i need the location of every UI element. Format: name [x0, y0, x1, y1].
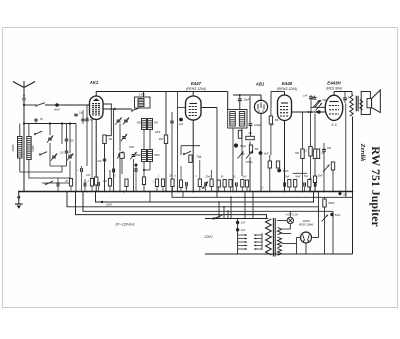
svg-text:7500: 7500 [154, 154, 160, 157]
volume pot [246, 151, 253, 159]
resistor af r3 [316, 149, 319, 159]
wire det h [261, 154, 270, 156]
wire mid h [181, 145, 200, 147]
wire T1 top [143, 92, 145, 98]
coil T2a [230, 112, 236, 127]
wire T2 down b [241, 128, 243, 176]
tube AK1 envelope [90, 96, 104, 120]
wire mains top [205, 218, 268, 220]
tube E446 grids [280, 106, 289, 108]
wire osc feed [149, 192, 151, 203]
node d1 [123, 191, 125, 193]
wire osc c [143, 162, 145, 178]
resistor bus rb9 [198, 179, 201, 187]
svg-text:40nF: 40nF [54, 107, 60, 111]
tube E447 anode [190, 103, 198, 105]
capacitor psu [330, 213, 333, 216]
svg-text:300: 300 [154, 122, 159, 125]
coil osc B [148, 119, 153, 130]
coil osc A [142, 119, 147, 130]
svg-text:AB1: AB1 [255, 82, 265, 87]
wire drop6 [252, 192, 254, 219]
capacitor bus cb8 [313, 182, 315, 186]
wire B+ line P1 [172, 192, 353, 198]
svg-text:20000: 20000 [12, 144, 15, 153]
svg-text:25: 25 [64, 180, 68, 183]
trimmer gang3 [122, 136, 126, 138]
wire osc f [121, 158, 123, 174]
tube E447 grids [189, 106, 198, 108]
capacitor pad R [134, 168, 136, 172]
resistor bus rb10 [210, 179, 213, 187]
wire speaker leads [360, 99, 361, 101]
svg-text:5nF: 5nF [243, 177, 248, 179]
wire band v1 [49, 124, 51, 136]
voltage selector left [238, 234, 247, 236]
capacitor 330 [65, 138, 69, 140]
wire rect leads [297, 237, 301, 239]
svg-text:(470k): (470k) [245, 161, 252, 164]
wire E447 cathode [192, 120, 194, 192]
capacitor bus cb6 [283, 182, 285, 186]
wire lamp up [289, 211, 291, 217]
switch S3 [39, 154, 41, 156]
resistor bus rb4 [108, 179, 111, 187]
capacitor 5n out [343, 97, 347, 99]
resistor bus rb15 [245, 180, 248, 187]
resistor bus rb6 [161, 179, 164, 187]
wire drop3 [227, 211, 229, 218]
resistor AK1 cathode [95, 177, 98, 185]
trimmer C3 [68, 155, 72, 157]
wire E443H top [333, 92, 335, 96]
svg-text:(RES 964): (RES 964) [326, 86, 342, 90]
coil T1 [138, 99, 144, 107]
svg-text:500Ω: 500Ω [328, 202, 334, 205]
resistor bus rb14 [241, 180, 244, 188]
svg-text:7x200: 7x200 [32, 145, 35, 152]
capacitor oscc [170, 120, 174, 122]
wire line P5 [76, 192, 267, 220]
tube AB1 envelope [254, 100, 267, 113]
svg-text:10µF: 10µF [243, 98, 249, 102]
wire gang down [113, 109, 115, 192]
arrow bus a1 [203, 182, 209, 189]
trimmer osc2 [132, 154, 136, 156]
svg-text:~: ~ [77, 168, 79, 172]
tube E443H anode [330, 101, 339, 103]
svg-text:4nF: 4nF [97, 160, 102, 163]
svg-text:1805: 1805 [303, 219, 310, 223]
wire band v5 [61, 124, 63, 145]
capacitor bus cb7 [303, 182, 305, 186]
svg-text:10nF: 10nF [317, 176, 323, 178]
capacitor 100pF [249, 123, 253, 125]
svg-text:(RGN 1064): (RGN 1064) [299, 223, 314, 227]
wire grid left [311, 106, 325, 108]
svg-text:25nF: 25nF [283, 177, 290, 179]
capacitor bus cb4 [204, 182, 206, 186]
wire band loop1 [20, 158, 62, 172]
wire band v4 [75, 124, 77, 192]
wire v87 [86, 105, 88, 119]
resistor right1 [313, 149, 316, 159]
coil L2 [27, 137, 31, 160]
svg-text:100pF: 100pF [254, 124, 262, 127]
output transformer primary [350, 95, 353, 116]
svg-text:50nF: 50nF [295, 177, 301, 179]
coil T2b [239, 112, 245, 127]
svg-text:25nF: 25nF [204, 177, 211, 179]
electrolytic 4uF e447 [179, 118, 183, 122]
arrow tone1 [313, 100, 320, 108]
node d2 [192, 191, 194, 193]
wire rect heater b [282, 233, 292, 235]
resistor E447 cathode [189, 155, 192, 163]
wire 5n down [345, 104, 347, 198]
svg-text:ZF~128 kHz: ZF~128 kHz [114, 223, 134, 227]
capacitor 4nF [238, 98, 242, 100]
svg-text:4,5V 0,3A: 4,5V 0,3A [286, 213, 298, 217]
wire E446 plate [292, 111, 334, 113]
wire pot feed [318, 192, 320, 213]
capacitor pad L [80, 168, 82, 172]
IF transformer T2 [228, 110, 247, 129]
resistor bus rb5 [155, 179, 158, 187]
wire feed 183 [182, 192, 184, 198]
bus junction dots [23, 191, 25, 193]
transformer secondary3 [278, 249, 282, 256]
wire selector v [261, 233, 263, 250]
resistor det 1M [246, 136, 255, 139]
wire AK1 topcap [95, 92, 97, 97]
wire AK1 cathode down [95, 120, 97, 178]
capacitor 10p [74, 113, 77, 115]
svg-text:3060: 3060 [68, 154, 74, 157]
resistor bus rb18 [308, 180, 311, 188]
svg-text:4000: 4000 [135, 154, 141, 157]
svg-text:X X: X X [330, 123, 337, 127]
tube AB1 electrodes [257, 104, 259, 110]
ground [18, 192, 20, 204]
wire osc b [149, 130, 151, 150]
svg-text:E447: E447 [191, 81, 202, 86]
wire af mid [293, 172, 307, 174]
svg-text:4µF: 4µF [264, 153, 269, 156]
capacitor bus cb2 [83, 182, 85, 186]
svg-text:Zerdik: Zerdik [359, 143, 366, 162]
capacitor 2nF a [236, 221, 239, 224]
svg-text:1400: 1400 [139, 92, 146, 96]
trimmer gang2 [124, 119, 128, 121]
capacitor 5n in [313, 96, 317, 98]
transformer core [272, 218, 274, 257]
wire right v2 [339, 191, 341, 193]
capacitor right 100 [322, 148, 326, 150]
wire band v2 [66, 124, 68, 140]
wire g2 box [103, 104, 112, 136]
wire right v1 [323, 160, 325, 192]
arrow grid pot [315, 100, 321, 107]
svg-text:100: 100 [327, 147, 332, 150]
svg-text:50nF: 50nF [283, 170, 289, 173]
transformer secondary2 [278, 237, 282, 248]
wire osc a [143, 130, 145, 150]
rectifier tube [301, 232, 312, 243]
wire line P2 [96, 192, 314, 203]
svg-text:AK1: AK1 [89, 80, 99, 85]
output transformer secondary [360, 100, 363, 110]
wire E447 top [192, 92, 194, 97]
svg-text:500: 500 [137, 122, 142, 125]
switch T1 [131, 110, 133, 112]
wire det mid [249, 142, 251, 151]
capacitor 5pF [34, 118, 37, 120]
capacitor bus cb3 [185, 182, 187, 186]
wire AK1 plate right [103, 108, 132, 110]
capacitor 130 [65, 150, 69, 152]
resistor af r2 [309, 147, 312, 157]
tube AK1 grids [92, 103, 101, 105]
trimmer C2 [52, 155, 56, 157]
wire plate drop [216, 108, 218, 198]
trimmer gang1 [117, 119, 121, 121]
svg-text:0,3: 0,3 [304, 150, 308, 153]
capacitor bus cb9 [97, 182, 99, 186]
resistor osc [142, 177, 145, 185]
resistor bus rb1 [69, 179, 72, 187]
wire band loop2 [29, 160, 70, 179]
capacitor 1nF [309, 96, 313, 98]
capacitor 5p2 [81, 118, 84, 120]
capacitor bus cb5 [235, 182, 237, 186]
tube E443H grids [329, 105, 339, 107]
resistor det r1 [268, 161, 271, 168]
wire line P4 [83, 192, 333, 212]
switch S4 [42, 182, 70, 184]
resistor det 50k [269, 116, 272, 124]
arrow right pot [323, 165, 330, 173]
transformer primary [266, 219, 272, 255]
resistor bus rb8 [179, 180, 182, 188]
wire caps v [237, 219, 239, 255]
tube E446 envelope [278, 95, 292, 121]
wire E446 top [284, 92, 286, 96]
resistor det mid [249, 145, 252, 153]
wire lamp link [282, 224, 291, 229]
arrow psu pot [322, 215, 329, 222]
wire top rail [96, 91, 227, 93]
resistor T2b r [238, 130, 241, 138]
wire ant row [24, 123, 76, 125]
tube E446 anode [281, 102, 288, 104]
svg-text:10nF: 10nF [106, 203, 112, 207]
wire line P3 [67, 192, 319, 207]
resistor bus rb17 [294, 180, 297, 188]
svg-text:4µF: 4µF [179, 123, 184, 126]
svg-text:(RENS 1264): (RENS 1264) [277, 87, 297, 91]
resistor bus rb7 [171, 179, 174, 187]
svg-text:50µF: 50µF [335, 214, 341, 217]
wire osc e [119, 124, 121, 152]
svg-text:E446: E446 [282, 81, 293, 86]
wire mains bottom [205, 253, 353, 255]
svg-text:1500: 1500 [129, 147, 135, 149]
wire E446 down [284, 121, 286, 192]
trimmer osc1 [118, 153, 122, 155]
speaker driver [367, 99, 372, 108]
capacitor osc pad2 [120, 153, 125, 159]
tube AK1 anode [93, 98, 100, 101]
ground bus wire [18, 191, 353, 193]
wire T2 down a [232, 128, 234, 192]
resistor bus rb3 [90, 179, 93, 187]
wire e447 left [177, 92, 179, 192]
voltage selector right [254, 234, 262, 236]
PSU box right edge [352, 192, 354, 255]
pilot lamp [287, 217, 293, 223]
svg-text:5nF: 5nF [304, 176, 309, 178]
resistor right2 [313, 176, 316, 183]
coil L1 [18, 137, 23, 159]
wire band v3 [69, 124, 71, 154]
output transformer core [355, 96, 357, 112]
wire OT down [352, 117, 354, 192]
wire antenna down [23, 98, 25, 100]
capacitor 2nF b [236, 228, 239, 231]
coil osc D [148, 150, 153, 162]
resistor det r2 [276, 161, 279, 168]
resistor bus rb11 [217, 180, 220, 187]
svg-text:70k: 70k [196, 155, 202, 159]
wire AB1 top [250, 95, 261, 100]
wire r600 [165, 92, 167, 136]
wire E447 plate [201, 107, 217, 109]
svg-text:50µF: 50µF [240, 145, 246, 148]
resistor 1M [103, 135, 106, 144]
wire drop1 [218, 202, 220, 219]
wire psu v1 [332, 211, 334, 254]
wire det link [233, 94, 250, 96]
wire out top [334, 91, 352, 93]
capacitor pad [112, 169, 114, 173]
arrow tone2 [316, 103, 323, 111]
resistor bus rb12 [223, 180, 226, 188]
capacitor bus cb1 [56, 182, 58, 186]
svg-text:2nF: 2nF [240, 222, 246, 225]
wire psu pot [324, 207, 326, 228]
electrolytic 4uF det [259, 151, 263, 155]
transformer secondary1 [278, 228, 282, 235]
resistor 500 [323, 199, 326, 207]
capacitor 4nF ak1 [103, 158, 106, 160]
svg-text:130: 130 [60, 152, 65, 155]
svg-text:2000: 2000 [154, 132, 161, 134]
switch mains [213, 218, 215, 220]
arrow det pot [238, 152, 244, 159]
electrolytic 4uF af [316, 110, 318, 112]
capacitor 87 [85, 118, 88, 120]
capacitor 40nF [55, 103, 59, 107]
coil osc C [142, 150, 147, 162]
wire drop4 [230, 197, 232, 218]
svg-text:(PENS 1294): (PENS 1294) [186, 87, 206, 91]
svg-text:2nF: 2nF [240, 229, 246, 232]
capacitor 2nF right [338, 192, 341, 195]
speaker cone [372, 90, 381, 113]
wire T2 up [227, 92, 229, 110]
wire rect heater a [282, 233, 300, 235]
IF transformer T1 [135, 97, 151, 108]
resistor bus rb13 [229, 180, 232, 188]
wire drop5 [244, 192, 246, 219]
svg-text:1M: 1M [184, 188, 187, 190]
switch volume [183, 153, 185, 155]
speaker loop [361, 92, 370, 115]
svg-text:220V: 220V [203, 235, 213, 239]
tube E443H envelope [325, 95, 343, 120]
svg-text:600: 600 [159, 138, 164, 141]
resistor af r1 [301, 149, 304, 159]
resistor 600 [164, 135, 167, 144]
switch S1 [23, 104, 25, 106]
svg-text:E443H: E443H [327, 81, 341, 86]
wire rect B+ up [318, 207, 320, 238]
svg-text:1nF: 1nF [303, 95, 308, 98]
resistor right mid [331, 162, 334, 170]
switch S2 [34, 133, 36, 135]
tube E447 envelope [186, 96, 202, 120]
electrolytic out [317, 110, 320, 113]
resistor bus rb20 [125, 179, 128, 187]
electrolytic 50uF [234, 143, 238, 147]
antenna [13, 82, 35, 88]
wire AB1 down [260, 113, 262, 191]
wire osc d [149, 162, 151, 171]
resistor bus rb16 [288, 180, 291, 188]
wire drop2 [223, 207, 225, 219]
wire det down [249, 157, 251, 192]
capacitor 10nF [101, 201, 103, 203]
electrolytic 50nF [277, 169, 281, 173]
svg-text:RW 751 Jupiter: RW 751 Jupiter [369, 146, 383, 227]
trimmer C1 [48, 137, 52, 139]
svg-text:2nF: 2nF [342, 193, 348, 196]
